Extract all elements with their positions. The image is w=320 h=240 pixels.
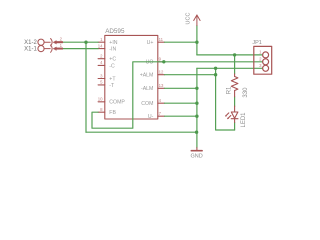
wire U+ to UCC [165, 41, 197, 43]
svg-text:X1-2: X1-2 [24, 40, 37, 46]
svg-text:+C: +C [109, 57, 116, 63]
green wires [63, 26, 263, 148]
op-amp U1 AD595 body [105, 35, 158, 119]
svg-text:U-: U- [148, 114, 154, 120]
JP1 pin circle 3 [263, 65, 269, 71]
svg-text:2: 2 [100, 54, 103, 59]
svg-text:+IN: +IN [109, 40, 117, 46]
svg-text:3: 3 [259, 63, 262, 68]
junction rail gnd [195, 131, 198, 134]
wire FB loop [92, 62, 164, 128]
junction -ALM gnd [195, 87, 198, 90]
supply UCC arrow [194, 15, 200, 26]
pin stub -C [98, 64, 105, 66]
svg-text:1: 1 [60, 43, 63, 48]
wire UCC to JP1 pin1 [197, 54, 263, 56]
svg-text:11: 11 [159, 37, 164, 42]
wire +ALM [165, 74, 216, 76]
svg-text:9: 9 [159, 57, 162, 62]
connector JP1 box [254, 46, 272, 74]
svg-text:+ALM: +ALM [140, 73, 154, 79]
LED1 arrow heads [225, 115, 229, 119]
svg-text:R1: R1 [227, 86, 233, 94]
pin stub +ALM [158, 74, 165, 76]
svg-text:2: 2 [259, 56, 262, 61]
junction R1 UCC [233, 53, 236, 56]
wire X1-1 to -IN [63, 48, 98, 50]
pin stub U+ [158, 41, 165, 43]
wire gnd left vertical [85, 42, 87, 132]
pin stub -T [98, 84, 105, 86]
junction COM gnd [195, 102, 198, 105]
svg-text:5: 5 [100, 80, 103, 85]
wire X1-2 to +IN [63, 41, 98, 43]
svg-text:UCC: UCC [186, 13, 192, 25]
svg-text:LED1: LED1 [241, 112, 247, 128]
svg-text:14: 14 [98, 43, 103, 48]
pin stub UO [158, 61, 165, 63]
svg-text:13: 13 [159, 83, 164, 88]
svg-text:AD595: AD595 [105, 28, 125, 35]
junction LED +ALM [214, 73, 217, 76]
wire -ALM [165, 87, 197, 89]
connector X1-1 [38, 45, 63, 52]
svg-text:GND: GND [190, 153, 202, 159]
wire R1 top [234, 55, 236, 74]
ground symbol GND [191, 148, 202, 151]
wire gnd bottom rail [86, 131, 197, 133]
resistor R1 [231, 74, 238, 97]
junction UCC U+ [195, 41, 198, 44]
svg-text:-T: -T [109, 83, 115, 89]
pin stub FB [98, 111, 105, 113]
pin stub +IN [98, 41, 105, 43]
junction X1 gnd [84, 41, 87, 44]
svg-text:1: 1 [100, 37, 103, 42]
junction UO FB [162, 60, 165, 63]
svg-text:8: 8 [100, 107, 103, 112]
wire gnd to JP1 pin3 [197, 67, 263, 69]
svg-text:X1-1: X1-1 [24, 46, 37, 52]
pin stub +T [98, 78, 105, 80]
svg-text:COMP: COMP [109, 100, 125, 106]
pin stub U- [158, 115, 165, 117]
wire R1 to LED1 [234, 97, 236, 106]
wire COM [165, 102, 197, 104]
svg-text:10: 10 [98, 97, 103, 102]
svg-text:4: 4 [100, 60, 103, 65]
pin stub COMP [98, 101, 105, 103]
wire LED cathode vertical [216, 68, 235, 130]
svg-text:3: 3 [100, 73, 103, 78]
svg-text:2: 2 [60, 37, 63, 42]
junction U- gnd [195, 115, 198, 118]
svg-text:UO: UO [146, 60, 154, 66]
pin stub -ALM [158, 87, 165, 89]
svg-text:+T: +T [109, 76, 116, 82]
IC left pin stubs [98, 42, 164, 116]
svg-text:-IN: -IN [109, 47, 116, 53]
svg-text:U+: U+ [147, 40, 154, 46]
JP1 pin circle 1 [263, 52, 269, 58]
svg-text:JP1: JP1 [252, 40, 261, 46]
wire LED1 bottom [234, 123, 236, 131]
svg-text:1: 1 [259, 50, 262, 55]
connector X1-2 [38, 39, 63, 46]
wire U- [165, 115, 197, 117]
JP1 pin circle 2 [263, 59, 269, 65]
pin stub +C [98, 58, 105, 60]
wire UO to JP1 pin2 [164, 61, 263, 63]
pin stub -IN [98, 48, 105, 50]
svg-text:7: 7 [159, 111, 162, 116]
svg-text:12: 12 [159, 70, 164, 75]
svg-text:330: 330 [243, 87, 249, 98]
wire UCC vertical [196, 26, 198, 55]
svg-text:4: 4 [159, 98, 162, 103]
pin stub COM [158, 102, 165, 104]
svg-text:COM: COM [141, 101, 153, 107]
wire gnd center vertical [196, 68, 198, 147]
svg-text:FB: FB [109, 110, 116, 116]
pin numbers [98, 37, 103, 112]
LED LED1 [226, 106, 238, 122]
junction dots [84, 41, 236, 134]
junction LED gnd [214, 67, 217, 70]
svg-text:-ALM: -ALM [141, 86, 153, 92]
svg-text:-C: -C [109, 63, 115, 69]
